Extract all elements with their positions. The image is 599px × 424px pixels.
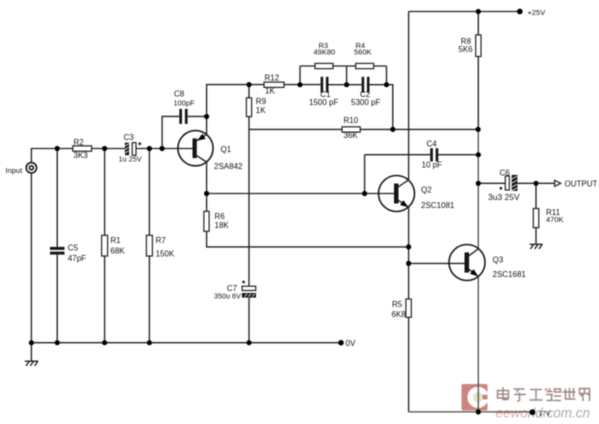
svg-text:6K8: 6K8 <box>392 310 407 319</box>
svg-text:1u 25V: 1u 25V <box>119 155 142 164</box>
svg-text:560K: 560K <box>354 48 372 57</box>
svg-text:R9: R9 <box>256 97 267 106</box>
svg-text:0V: 0V <box>346 339 356 348</box>
svg-text:2SC1081: 2SC1081 <box>421 201 455 210</box>
svg-text:2SC1681: 2SC1681 <box>493 270 527 279</box>
svg-text:Q1: Q1 <box>221 145 232 154</box>
svg-text:OUTPUT: OUTPUT <box>565 180 598 189</box>
svg-text:5K6: 5K6 <box>458 45 473 54</box>
svg-text:1K: 1K <box>265 87 275 96</box>
svg-text:68K: 68K <box>110 247 125 256</box>
svg-text:350u 6V: 350u 6V <box>214 292 241 301</box>
svg-text:C4: C4 <box>427 139 438 148</box>
svg-text:Q3: Q3 <box>493 255 504 264</box>
svg-text:1500 pF: 1500 pF <box>309 98 338 107</box>
svg-text:Input: Input <box>6 166 24 175</box>
svg-text:R6: R6 <box>215 212 226 221</box>
svg-text:18K: 18K <box>215 221 230 230</box>
svg-text:R12: R12 <box>265 74 280 83</box>
svg-text:10 pF: 10 pF <box>422 161 443 170</box>
svg-text:C3: C3 <box>124 133 135 142</box>
svg-text:R5: R5 <box>392 300 403 309</box>
svg-text:R10: R10 <box>344 116 359 125</box>
svg-text:470K: 470K <box>546 215 564 224</box>
svg-text:5300 pF: 5300 pF <box>351 98 380 107</box>
svg-text:3u3 25V: 3u3 25V <box>488 192 520 202</box>
svg-text:150K: 150K <box>156 250 175 259</box>
svg-text:R2: R2 <box>74 138 85 147</box>
svg-text:47pF: 47pF <box>68 254 86 263</box>
svg-text:Q2: Q2 <box>421 185 432 194</box>
svg-text:R7: R7 <box>156 236 167 245</box>
svg-text:C5: C5 <box>68 244 79 253</box>
svg-text:36K: 36K <box>344 131 359 140</box>
svg-text:100pF: 100pF <box>174 99 195 108</box>
svg-text:C8: C8 <box>174 90 185 99</box>
svg-text:R1: R1 <box>110 236 121 245</box>
svg-text:1K: 1K <box>256 106 266 115</box>
svg-text:17V: 17V <box>539 410 552 417</box>
svg-text:+25V: +25V <box>528 8 546 17</box>
svg-text:3K3: 3K3 <box>74 151 89 160</box>
svg-text:C6: C6 <box>500 168 511 177</box>
svg-text:2SA842: 2SA842 <box>214 162 243 171</box>
svg-text:49K80: 49K80 <box>314 48 336 57</box>
